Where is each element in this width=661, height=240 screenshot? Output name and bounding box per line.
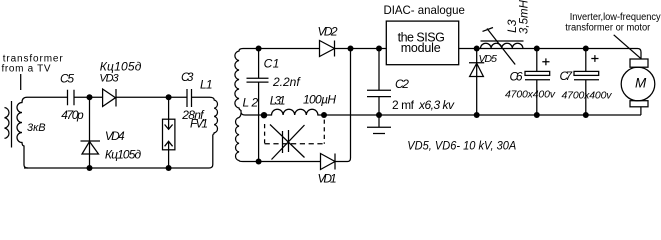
diode VD2 xyxy=(320,41,335,57)
spark gap symbol xyxy=(270,125,305,160)
svg-text:VD5: VD5 xyxy=(479,53,498,65)
dashed module outline xyxy=(264,124,266,144)
L2 winding lower xyxy=(236,113,243,162)
svg-text:470p: 470p xyxy=(61,108,84,122)
svg-text:C6: C6 xyxy=(510,70,523,84)
node junction C1 top xyxy=(256,46,262,52)
svg-text:3кВ: 3кВ xyxy=(27,122,46,134)
L2 winding upper xyxy=(235,49,258,116)
svg-text:L3: L3 xyxy=(505,19,519,33)
node junction VD4 bottom xyxy=(87,165,93,171)
svg-text:DIAC- analogue: DIAC- analogue xyxy=(384,3,466,17)
svg-text:100µH: 100µH xyxy=(303,93,336,107)
wire C5 to VD3 xyxy=(75,96,103,98)
svg-text:VD2: VD2 xyxy=(318,24,338,38)
arrester FV1 xyxy=(168,97,170,168)
svg-text:C7: C7 xyxy=(560,69,574,83)
svg-text:2 mf: 2 mf xyxy=(392,98,415,112)
svg-text:M: M xyxy=(635,76,647,91)
inductor L3 adjustable xyxy=(481,43,523,48)
node junction C2 top xyxy=(376,46,382,52)
bottom bus left section xyxy=(24,135,213,169)
node junction L31 left xyxy=(261,112,267,118)
wire VD3 to C3 xyxy=(116,96,187,98)
svg-text:x6,3 kv: x6,3 kv xyxy=(418,98,455,112)
node junction VD3/VD4 xyxy=(87,94,93,100)
diode VD3 xyxy=(103,89,116,107)
svg-text:Кц105д: Кц105д xyxy=(100,60,142,74)
capacitor C6 xyxy=(534,46,540,52)
ground xyxy=(367,115,391,134)
svg-text:VD4: VD4 xyxy=(105,129,125,143)
svg-text:3,5mH: 3,5mH xyxy=(519,0,531,34)
node junction A xyxy=(348,46,354,52)
capacitor C5 xyxy=(68,90,75,106)
transformer T secondary winding xyxy=(17,97,28,168)
svg-text:Кц105д: Кц105д xyxy=(105,148,142,162)
inductor L31 xyxy=(259,109,641,115)
motor M xyxy=(630,59,648,67)
svg-text:from a TV: from a TV xyxy=(2,64,51,75)
svg-text:FV1: FV1 xyxy=(190,117,208,131)
leader line from label to transformer xyxy=(20,74,22,90)
svg-text:4700x400v: 4700x400v xyxy=(505,89,556,101)
wire down to VD4 xyxy=(89,97,91,168)
capacitor C1 xyxy=(247,49,269,162)
diode VD5 xyxy=(469,49,484,116)
top bus middle xyxy=(243,48,386,50)
svg-text:VD5, VD6- 10 kV, 30A: VD5, VD6- 10 kV, 30A xyxy=(407,139,516,153)
svg-text:VD3: VD3 xyxy=(99,73,119,85)
top bus right xyxy=(459,49,641,60)
leader line to motor xyxy=(614,35,641,59)
diode VD4 xyxy=(81,141,101,154)
svg-text:module: module xyxy=(401,41,441,55)
svg-text:C3: C3 xyxy=(181,70,194,84)
node junction L31 right xyxy=(321,112,327,118)
svg-text:C2: C2 xyxy=(395,77,409,91)
capacitor C3 xyxy=(187,89,192,107)
diode VD1 xyxy=(321,154,336,170)
svg-text:Inverter,low-frequency: Inverter,low-frequency xyxy=(570,12,661,23)
svg-text:L31: L31 xyxy=(270,94,286,108)
node junction C2 bottom xyxy=(376,112,382,118)
wire top bus left xyxy=(27,96,67,98)
svg-text:C5: C5 xyxy=(60,72,74,86)
capacitor C7 xyxy=(583,46,589,52)
bottom bus middle xyxy=(243,49,351,162)
capacitor C2 xyxy=(367,49,391,116)
svg-text:4700x400v: 4700x400v xyxy=(562,90,613,102)
node junction C1 bottom xyxy=(256,159,262,165)
svg-text:transformer or motor: transformer or motor xyxy=(565,23,651,34)
module box SISG xyxy=(386,21,458,65)
transformer T primary winding xyxy=(5,108,9,139)
svg-text:VD1: VD1 xyxy=(318,172,337,186)
transformer T core xyxy=(11,101,13,148)
node junction FV1 top xyxy=(166,94,172,100)
svg-text:L1: L1 xyxy=(200,78,213,92)
svg-text:C1: C1 xyxy=(264,56,280,70)
node junction VD5 top xyxy=(474,46,480,52)
svg-text:2.2nf: 2.2nf xyxy=(272,75,301,89)
